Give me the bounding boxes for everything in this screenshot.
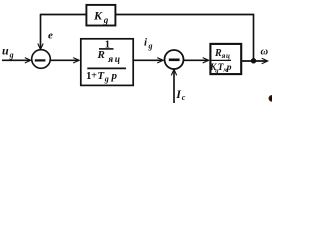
svg-text:g: g (104, 74, 109, 83)
svg-text:g: g (9, 50, 14, 59)
svg-text:g: g (103, 15, 109, 25)
svg-text:c: c (182, 93, 186, 102)
svg-text:R: R (214, 48, 222, 59)
svg-text:+: + (91, 71, 97, 82)
svg-text:ω: ω (261, 47, 269, 58)
svg-text:u: u (2, 44, 9, 58)
svg-text:R: R (97, 49, 105, 61)
svg-text:яц: яц (221, 52, 231, 60)
svg-text:e: e (48, 30, 53, 42)
svg-text:K: K (93, 9, 103, 23)
svg-text:яц: яц (107, 55, 121, 65)
svg-text:p: p (226, 63, 232, 73)
svg-text:p: p (111, 70, 118, 82)
svg-text:g: g (148, 42, 153, 51)
